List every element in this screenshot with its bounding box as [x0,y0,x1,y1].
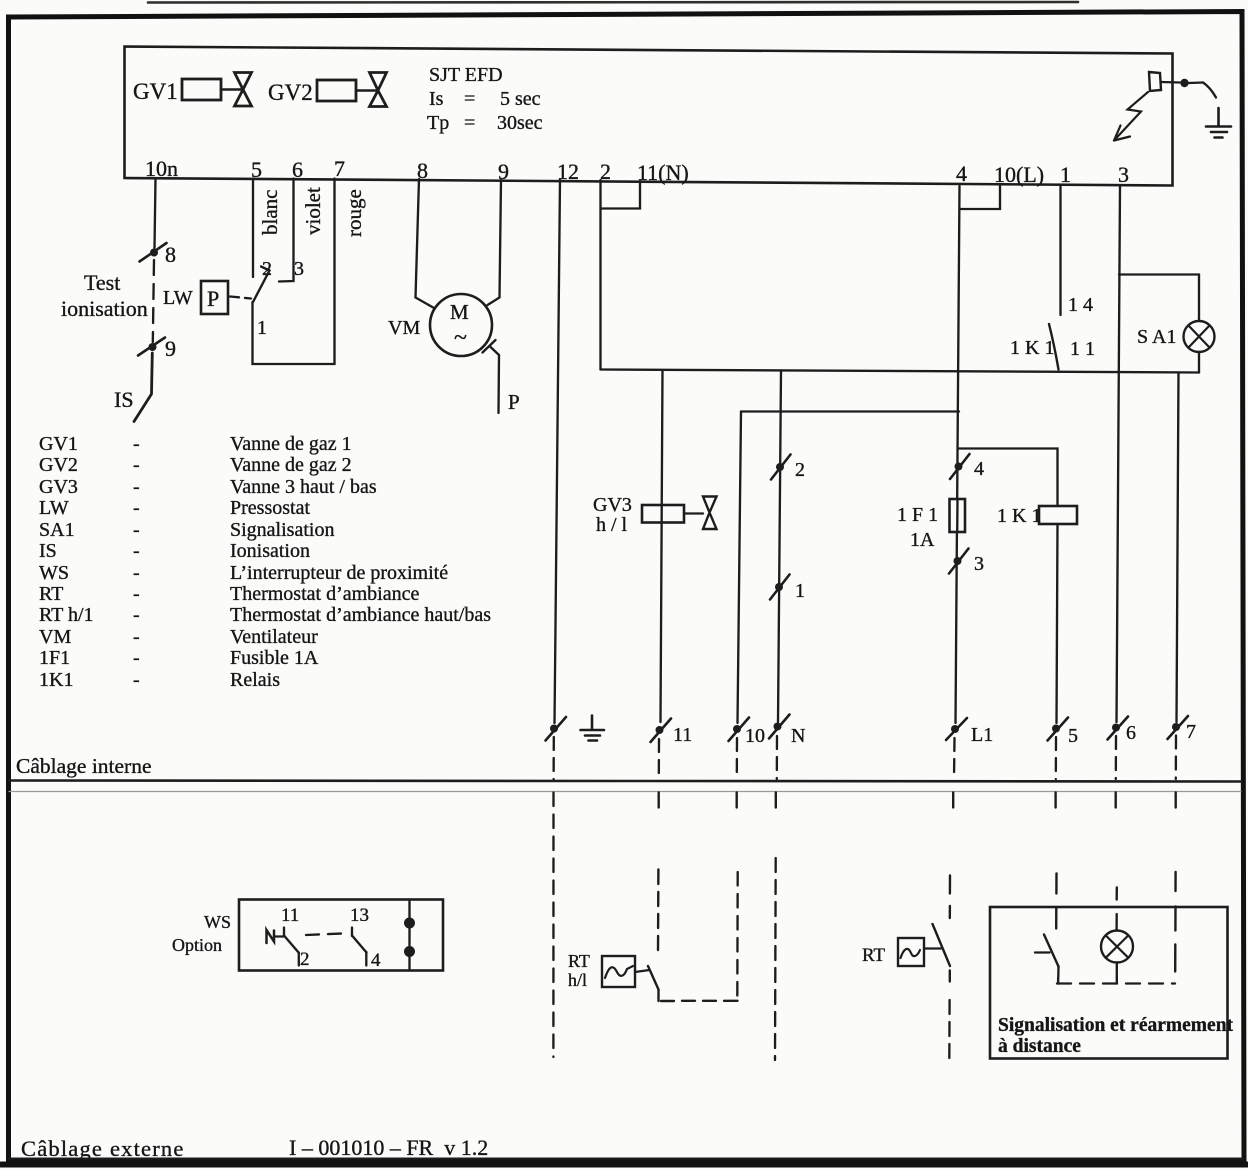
svg-text:-: - [133,540,140,562]
wire terminal 6 with contact 3 [279,179,294,282]
svg-text:Ventilateur: Ventilateur [230,626,318,648]
pressostat LW box [201,281,228,314]
svg-text:VM: VM [39,626,71,648]
svg-text:4: 4 [974,458,984,480]
terminal point 10 blade [729,718,750,742]
WS Option box [239,900,443,971]
branch to relay coil [959,449,1058,507]
svg-text:RT h/1: RT h/1 [39,604,94,626]
svg-text:WS: WS [39,562,69,584]
WS contact 11-2 lower lead [298,953,300,966]
contact 2 hook [261,267,270,271]
svg-text:Vanne de gaz 1: Vanne de gaz 1 [230,433,352,455]
WS bus dot upper [404,918,415,929]
svg-text:10n: 10n [145,156,178,181]
WS mechanical link dashes [306,934,343,936]
lamp bottom wire [1198,352,1200,373]
WS actuator arrow [267,930,275,943]
svg-text:rouge: rouge [342,189,366,237]
svg-text:violet: violet [301,187,325,235]
relay coil 1K1 body [1039,506,1077,524]
bottom border thick edge [1,1162,1247,1168]
switch 8 blade [140,243,167,262]
relay contact 1K1 blade [1049,324,1059,370]
terminal point 6 blade [1108,717,1129,740]
terminal point L1 dot [951,725,959,733]
svg-text:-: - [133,583,140,605]
motor tap tick [483,340,496,353]
svg-text:h/l: h/l [568,970,587,990]
dashed wire 5 external [1055,874,1058,929]
terminal point 5 blade [1048,718,1069,741]
dashed wire L1 external upper [949,876,952,919]
svg-text:1: 1 [257,317,267,339]
svg-text:Test: Test [84,270,120,295]
terminal point 11 blade [651,719,672,743]
svg-text:Vanne 3 haut / bas: Vanne 3 haut / bas [230,476,377,498]
RT sensor squiggle [901,949,921,958]
remote switch tick [1035,951,1050,953]
svg-text:3: 3 [1118,162,1129,187]
svg-text:RT: RT [568,951,590,971]
remote lamp circle [1101,931,1133,963]
svg-text:4: 4 [956,161,967,186]
GV3 stem [684,512,703,514]
wire 10n [155,178,156,248]
WS bus dot lower [404,946,415,957]
wire dashed 8 to 9 [153,260,154,342]
svg-text:1A: 1A [910,529,935,551]
switch blade to earth [1203,83,1216,98]
wire 4 chain [956,186,960,723]
WS contact 13-4 fixed lead [351,928,353,937]
dashed continuation 7 [1175,736,1178,780]
svg-text:h / l: h / l [596,514,628,536]
GV3 coil body [642,505,684,523]
wire terminal 2 down to bus [599,180,601,370]
svg-text:9: 9 [498,159,509,184]
dashed continuation 5 [1055,737,1058,779]
svg-text:RT: RT [39,583,63,605]
remote lamp lower lead [1116,963,1118,978]
scan artifact top line [148,1,1078,4]
fuse internal wire [956,499,959,532]
svg-text:GV2: GV2 [268,80,313,105]
fan motor VM circle [430,294,492,356]
svg-text:GV3: GV3 [593,494,632,516]
dashed wire L1 external lower [948,1000,951,1062]
dashed wire 10 external [736,872,739,1000]
svg-text:IS: IS [114,387,134,412]
RT lower dash [949,971,951,982]
lightning arrow [1114,92,1148,141]
lamp SA1 circle [1184,321,1215,352]
LW link dashes [230,297,251,299]
svg-text:N: N [791,725,805,747]
svg-text:1 1: 1 1 [1070,338,1095,360]
WS contact 11-2 blade [284,936,299,954]
valve GV2 stem [356,89,378,92]
WS contact 11-2 fixed lead [283,928,285,937]
svg-text:Option: Option [172,935,222,955]
node dot [1180,79,1188,87]
RT h/l blade [648,966,659,990]
remote switch blade [1044,935,1059,967]
control box SJT outline [125,47,1173,186]
wire terminal 1 to contact 14 [1059,185,1061,315]
RT blade [933,924,951,966]
svg-text:30sec: 30sec [497,112,543,134]
GV3 bowtie [703,497,717,530]
terminal point 7 dot [1172,723,1180,731]
WS contact 13-4 blade [352,936,367,953]
svg-text:2: 2 [795,459,805,481]
svg-text:-: - [133,604,140,626]
switch 1 blade [770,575,790,600]
valve GV1 stem [221,88,243,91]
ionisation electrode IS wire [134,353,152,422]
svg-text:P: P [508,390,520,414]
svg-text:Câblage interne: Câblage interne [16,754,152,778]
svg-text:-: - [133,497,140,519]
bottom thin rule above border [9,1158,1243,1160]
svg-text:4: 4 [371,950,381,971]
svg-text:GV1: GV1 [133,79,178,104]
valve GV2 bowtie [370,73,387,107]
remote lamp upper lead [1115,914,1117,931]
svg-text:1 K 1: 1 K 1 [997,505,1041,527]
terminal point 12 dot [550,725,558,733]
separator faint second line [9,791,1241,793]
svg-text:Vanne de gaz 2: Vanne de gaz 2 [230,454,352,476]
WS contact 13-4 lower lead [365,952,367,966]
svg-text:SJT EFD: SJT EFD [429,64,503,86]
dashed wire 6 external [1115,888,1118,900]
valve GV1 coil body [182,79,221,100]
wire node to switch [1189,81,1203,84]
svg-text:IS: IS [39,540,57,562]
ground symbol beside 12 [581,716,605,741]
svg-text:~: ~ [454,325,467,351]
svg-text:S A1: S A1 [1137,326,1176,348]
svg-text:1 F 1: 1 F 1 [897,504,938,526]
switch 1 dot [775,583,783,591]
svg-text:2: 2 [300,949,310,970]
svg-text:-: - [133,626,140,648]
remote lamp cross [1106,936,1128,958]
remote lamp dash to rail [1116,978,1118,984]
svg-text:Signalisation et réarmement: Signalisation et réarmement [998,1015,1234,1036]
lamp SA1 cross [1189,326,1210,348]
svg-text:blanc: blanc [258,190,282,235]
terminal labels [145,156,1129,187]
surge arrester box top right [1149,72,1161,91]
svg-text:Fusible 1A: Fusible 1A [230,647,319,669]
svg-text:I – 001010 – FR v 1.2: I – 001010 – FR v 1.2 [289,1135,488,1160]
valve GV2 coil body [317,80,356,101]
switch 4 dot [955,463,963,471]
svg-text:VM: VM [388,317,420,339]
svg-text:=: = [464,112,475,134]
svg-text:Thermostat d’ambiance haut/bas: Thermostat d’ambiance haut/bas [230,604,491,626]
svg-text:-: - [133,647,140,669]
switch 8 dot [150,249,158,257]
dashed continuation 11 [658,739,661,779]
wire terminal 3 [1117,186,1121,722]
svg-text:-: - [133,476,140,498]
svg-text:11: 11 [281,905,299,926]
svg-text:1K1: 1K1 [39,669,73,691]
dashed wire 11 external [657,870,660,951]
text SJT EFD [427,64,543,134]
wire terminal 5 [252,179,254,278]
wire terminal 12 [555,180,561,724]
svg-text:GV3: GV3 [39,476,78,498]
svg-text:9: 9 [165,336,176,361]
LW changeover blade [253,271,270,303]
svg-text:Signalisation: Signalisation [230,519,334,541]
svg-text:1: 1 [795,580,805,602]
svg-text:2: 2 [262,258,272,280]
svg-text:-: - [133,433,140,455]
svg-text:Thermostat d’ambiance: Thermostat d’ambiance [230,583,419,605]
separator line Câblage interne/externe [9,781,1241,782]
WS contact 11-2 tick [276,935,285,937]
svg-text:-: - [133,519,140,541]
svg-text:Is: Is [429,88,444,110]
svg-text:1 K 1: 1 K 1 [1010,337,1054,359]
RT lead [924,947,941,949]
wire terminal 7 and common return [253,179,335,365]
terminal point 7 blade [1168,716,1189,739]
wire terminal 8 to motor [416,179,435,308]
remote switch lower lead [1057,967,1060,978]
svg-text:5 sec: 5 sec [500,88,541,110]
thermostat RT box [898,938,924,966]
lamp branch wire [1119,275,1199,322]
svg-text:Câblage externe: Câblage externe [21,1136,185,1161]
wire 10 branch [738,412,742,724]
svg-text:-: - [133,454,140,476]
svg-text:GV2: GV2 [39,454,78,476]
wire P from motor [490,347,499,414]
dashed to rail [1057,978,1059,984]
svg-text:=: = [464,88,475,110]
dashed corner 11 to 10 [659,990,738,1001]
svg-text:SA1: SA1 [39,519,75,541]
wire arrester to node [1161,81,1180,84]
svg-text:7: 7 [334,156,345,181]
dashed continuation N [776,736,779,779]
svg-text:10: 10 [745,725,765,747]
svg-text:WS: WS [204,912,231,932]
svg-text:13: 13 [350,905,369,926]
wire GV3 branch [661,370,663,722]
terminal point 10 dot [733,725,741,733]
svg-text:L1: L1 [971,724,993,746]
svg-text:11: 11 [673,724,692,746]
svg-text:Relais: Relais [230,669,280,691]
WS internal bus [408,900,410,970]
bus line y411 [741,410,959,412]
terminal point 11 dot [656,726,664,734]
svg-text:5: 5 [1068,725,1078,747]
svg-text:-: - [133,669,140,691]
svg-text:RT: RT [862,945,886,966]
terminal point N dot [774,723,782,731]
dashed wire 7 external [1174,872,1177,972]
switch 3 blade [949,549,969,574]
svg-text:3: 3 [294,258,304,280]
valve GV1 bowtie [235,73,252,107]
svg-text:GV1: GV1 [39,433,78,455]
RT h/l sensor squiggle [605,966,633,978]
svg-text:7: 7 [1186,721,1196,743]
wire to terminal point 7 [1177,373,1179,723]
thermostat RT h/l box [602,956,635,987]
switch 9 dot [149,343,157,351]
dashed continuation 10 [736,738,739,779]
terminal point 6 dot [1112,724,1120,732]
switch 4 blade [950,454,970,479]
dashed continuation L1 [953,738,956,779]
terminal point 5 dot [1052,725,1060,733]
ground top right [1206,108,1231,138]
dashed bottom rail [1057,982,1175,984]
svg-text:1F1: 1F1 [39,647,70,669]
switch 2 blade [771,455,791,480]
svg-text:Pressostat: Pressostat [230,497,310,519]
switch 9 blade [138,338,165,356]
svg-text:-: - [133,562,140,584]
terminal point 12 blade [546,717,567,741]
svg-text:à distance: à distance [998,1036,1081,1057]
stub 10(L) [960,185,1000,209]
switch 2 dot [776,463,784,471]
switch 3 dot [954,557,962,565]
svg-text:11(N): 11(N) [637,160,689,185]
wire terminal 9 to motor [488,180,502,305]
dashed continuation 6 [1115,736,1118,779]
RT h/l lead [635,970,650,972]
wire coil to terminal point 5 [1057,524,1058,723]
dashed continuation 12 [552,737,555,779]
svg-text:3: 3 [974,553,984,575]
fuse 1F1 body [950,499,966,532]
svg-text:8: 8 [165,242,176,267]
terminal point L1 blade [946,718,967,740]
svg-text:1: 1 [1060,162,1071,187]
svg-text:M: M [450,300,469,324]
svg-text:6: 6 [1126,722,1136,744]
svg-text:Tp: Tp [427,112,449,134]
wire N chain [778,371,781,723]
svg-text:Ionisation: Ionisation [230,540,310,562]
svg-text:P: P [207,286,219,311]
legend block [39,433,491,691]
stub 11(N) [602,181,641,209]
svg-text:1 4: 1 4 [1068,294,1093,316]
svg-text:LW: LW [163,287,193,309]
terminal point N blade [769,715,790,739]
svg-text:LW: LW [39,497,69,519]
dashed wire N external [774,858,777,1060]
Signalisation box [990,907,1228,1059]
bus line y370 [601,370,1200,373]
svg-text:10(L): 10(L) [994,162,1044,187]
svg-text:ionisation: ionisation [61,296,148,321]
svg-text:L’interrupteur de proximité: L’interrupteur de proximité [230,562,448,584]
